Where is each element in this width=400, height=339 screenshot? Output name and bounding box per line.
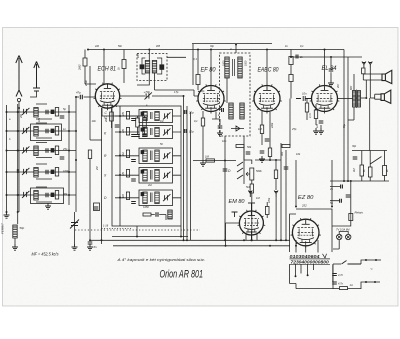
capacitor Ca2 <box>46 110 48 115</box>
trimmer row K <box>163 128 170 135</box>
coil row R a <box>143 150 147 162</box>
core T2 <box>233 59 235 76</box>
ground main <box>87 244 93 250</box>
resistor R right1 <box>360 165 364 176</box>
transformer output OPT <box>353 90 361 109</box>
wire el84 cath gnd <box>320 125 322 128</box>
junction <box>183 95 185 97</box>
coil row U b <box>155 112 159 121</box>
box coil row X <box>139 168 173 184</box>
junction <box>101 239 103 241</box>
capacitor row U <box>131 119 136 121</box>
wire det2 down <box>243 146 245 160</box>
wire row b stubs <box>36 123 52 138</box>
junction <box>285 239 287 241</box>
coil T2 secondary <box>238 57 242 78</box>
wire T2 inner <box>226 78 228 103</box>
resistor R right2 <box>368 167 372 177</box>
coil row K b <box>155 128 159 137</box>
capacitor 6n <box>88 242 93 244</box>
wire to plug top <box>361 260 366 264</box>
wire R right1 <box>361 151 363 182</box>
coil box bottom <box>168 210 172 219</box>
junction <box>375 259 377 261</box>
wire gang rail 2 <box>186 106 188 240</box>
wire plug stub bottom <box>366 281 380 283</box>
coil T1 secondary <box>152 61 156 74</box>
core row D <box>151 193 153 203</box>
wire EABC pin1 <box>261 111 263 125</box>
tube EABC80 V3 <box>252 84 282 113</box>
capacitor box bottom <box>156 212 158 217</box>
capacitor 4,7n a <box>332 274 337 276</box>
wire to plug bottom <box>348 282 367 289</box>
resistor R det <box>206 159 215 162</box>
capacitor C fb <box>284 167 289 169</box>
junction <box>17 211 19 213</box>
wire mains bottom <box>333 288 339 290</box>
wire detector out <box>243 136 245 160</box>
junction <box>224 239 226 241</box>
junction <box>119 155 121 157</box>
wire EABC right 1 <box>280 143 282 240</box>
resistor Re1 <box>55 191 58 200</box>
ground c top right <box>328 80 334 86</box>
capacitor coupling 10n <box>296 96 312 101</box>
junction <box>68 171 70 173</box>
switch mains <box>342 261 362 265</box>
trimmer row U <box>163 112 170 119</box>
trimmer row D <box>163 194 170 201</box>
matching box <box>362 68 365 74</box>
coil row D b <box>155 192 159 204</box>
capacitor C det2 <box>246 152 251 154</box>
box input bandfilter 1 <box>31 124 62 141</box>
resistor R EABC1 <box>260 125 263 134</box>
resistor R grid EL84 <box>305 103 308 112</box>
tube ECH81 V1 <box>94 83 122 111</box>
resistor row K <box>126 128 129 136</box>
wire EZ80 pin2 <box>317 240 319 253</box>
wire row X <box>115 174 181 176</box>
wire T1 to EF80 grid <box>155 90 199 96</box>
wire T1 to mixer <box>137 73 155 90</box>
wire cluster feed rail <box>75 97 77 212</box>
capacitor Cd2 <box>46 170 48 175</box>
wire mixer out <box>120 95 145 97</box>
wire R EABC1 down <box>261 134 263 146</box>
wire R4 <box>144 116 146 134</box>
capacitor C EABC <box>265 139 270 141</box>
junction <box>350 180 352 182</box>
wire EABC chain <box>269 112 271 160</box>
wire row a stubs <box>36 104 52 119</box>
wire row R <box>115 155 181 157</box>
resistor R right3 <box>383 166 387 176</box>
terminal strip bracket <box>323 254 327 258</box>
wire EF80 feed vertical <box>192 44 194 85</box>
resistor R screen EF80 <box>196 75 200 85</box>
junction <box>119 174 121 176</box>
wire EZ80 loop top <box>296 209 332 252</box>
wire left rail 2 <box>17 104 19 212</box>
junction <box>180 236 182 238</box>
capacitor row R <box>131 160 136 162</box>
junction <box>330 56 332 58</box>
resistor R5 <box>110 112 114 121</box>
wire det gnd <box>224 181 226 240</box>
coil row X b <box>155 170 159 182</box>
wire input row d <box>7 171 77 173</box>
EM80 left T-bar <box>232 212 238 217</box>
wire input row e <box>7 194 77 196</box>
ground gang <box>72 244 78 250</box>
junction <box>210 49 212 51</box>
junction <box>17 130 19 132</box>
junction <box>17 171 19 173</box>
wire R right3 <box>384 151 386 182</box>
junction <box>17 169 19 171</box>
trimmer row X <box>163 172 170 179</box>
socket row underline <box>290 259 331 264</box>
wire EABC anode <box>266 50 268 86</box>
wire speaker return <box>369 98 371 151</box>
capacitor Cc3 blob <box>51 149 54 153</box>
core row K <box>151 128 153 135</box>
coil La1 <box>34 108 38 118</box>
junction <box>186 239 188 241</box>
coil row X a <box>143 170 147 182</box>
wire EM80 grid <box>226 223 240 246</box>
tube EZ80 V6 <box>291 218 321 248</box>
wire gang link dotted <box>75 229 200 231</box>
coil Lb1 <box>34 127 38 137</box>
EM80 top T-bar <box>248 202 255 204</box>
resistor Rd1 <box>55 168 58 177</box>
tube EL84 V4 <box>310 84 340 113</box>
capacitor C6 <box>115 125 120 127</box>
switch contacts D <box>237 162 243 179</box>
ground EL84 r <box>313 128 319 134</box>
coil ferrite antenna <box>13 225 17 238</box>
wire EM80 cathode down <box>250 235 252 240</box>
capacitor C tone1 <box>341 185 343 189</box>
resistor row X <box>126 170 129 178</box>
wire speaker1 leads <box>363 74 382 80</box>
wire osc join <box>90 139 102 141</box>
junction <box>243 239 245 241</box>
box tuner coil pack <box>112 106 181 226</box>
capacitor C right <box>353 157 358 159</box>
wire input row c <box>7 150 77 152</box>
wire T2 feed <box>235 45 237 54</box>
wire AF bus <box>193 160 236 162</box>
capacitor C cath EL84 <box>319 121 324 123</box>
junction <box>103 49 105 51</box>
potentiometer volume 500k <box>250 168 254 180</box>
junction <box>290 56 292 58</box>
wire EM80 pins down <box>246 234 257 240</box>
junction <box>119 131 121 133</box>
capacitor row K <box>131 135 136 137</box>
junction <box>280 239 282 241</box>
wire lamps down <box>333 240 339 249</box>
core row U <box>151 112 153 119</box>
wire row d stubs <box>36 164 52 179</box>
junction <box>6 211 8 213</box>
switch tone <box>370 157 381 165</box>
capacitor 20p <box>184 110 186 114</box>
coil row D a <box>143 192 147 204</box>
junction <box>6 111 8 113</box>
resistor row U <box>126 112 129 120</box>
wire R3 <box>137 116 139 134</box>
resistor Rb1 <box>55 127 58 136</box>
wire c top right <box>330 57 332 80</box>
capacitor T1a <box>140 65 144 69</box>
capacitor C cath EF80 <box>218 126 223 128</box>
ground cath EF80 <box>217 130 223 136</box>
junction <box>343 180 345 182</box>
wire mains 1 <box>333 263 341 265</box>
capacitor row X <box>131 179 136 181</box>
ground av <box>259 156 265 162</box>
capacitor blob row R <box>141 151 144 154</box>
resistor row D <box>126 192 129 200</box>
junction <box>269 245 271 247</box>
wire fuse to transformer <box>332 221 351 227</box>
junction <box>17 194 19 196</box>
junction <box>87 49 89 51</box>
wire R2 leads <box>123 50 125 84</box>
wire box bottom bus <box>112 236 188 238</box>
wire row D <box>115 197 181 199</box>
capacitor Cb2 <box>46 129 48 134</box>
junction <box>89 239 91 241</box>
junction <box>68 130 70 132</box>
wire mains left drop <box>332 264 334 289</box>
wire plug stub top <box>366 259 381 261</box>
capacitor Cd3 blob <box>51 170 54 174</box>
junction <box>365 97 367 99</box>
junction <box>275 159 277 161</box>
junction <box>374 281 376 283</box>
wire input row b <box>7 130 77 132</box>
wire row K <box>115 131 181 133</box>
wire antenna rail down <box>18 108 20 212</box>
wire to ECH81 grid <box>84 96 96 98</box>
capacitor 47p <box>80 95 82 100</box>
antenna AM arrow <box>16 56 22 97</box>
diode load arrow <box>231 126 244 131</box>
wire OPT junction <box>353 97 367 99</box>
antenna FM arrow <box>33 62 40 92</box>
antenna coupling element <box>17 98 20 101</box>
trimmer +12p <box>145 92 152 99</box>
junction <box>119 115 121 117</box>
wire socket right drop <box>332 265 334 283</box>
coil Le1 <box>34 191 38 201</box>
wire g2 down <box>290 82 292 99</box>
resistor R anode load <box>282 144 290 147</box>
tube EM80 V5 <box>238 210 266 237</box>
resistor R EM80 <box>265 207 269 215</box>
capacitor C supply <box>346 195 351 197</box>
junction <box>365 259 367 261</box>
wire antenna coupling <box>76 96 79 98</box>
capacitor C det <box>223 169 228 171</box>
resistor Rc1 <box>55 146 58 155</box>
junction <box>275 239 277 241</box>
wire ferrite down <box>14 238 16 244</box>
capacitor tuning gang <box>70 220 79 229</box>
wire gang dotted label <box>102 228 132 230</box>
coil T2 quaternary <box>240 103 244 119</box>
component box pad <box>94 203 100 211</box>
junction <box>224 160 226 162</box>
junction <box>17 150 19 152</box>
capacitor C-in2 <box>60 157 65 159</box>
wire em right down <box>275 197 277 240</box>
junction lead1 <box>295 275 297 277</box>
fuse mains <box>340 287 348 290</box>
junction <box>365 281 367 283</box>
wire T1 feed <box>148 50 150 61</box>
ground EL84 <box>318 128 324 134</box>
trimmer row R <box>163 152 170 159</box>
wire lamps top <box>339 232 348 235</box>
wire feedback <box>289 99 291 147</box>
box coil row R <box>139 148 173 164</box>
wire det join <box>255 159 281 161</box>
coil T2 tertiary <box>229 103 233 119</box>
core row X <box>151 170 153 180</box>
socket leads <box>296 265 314 277</box>
wire top rail 2 <box>192 43 272 45</box>
junction <box>324 49 326 51</box>
junction <box>251 239 253 241</box>
wire EZ loop stub <box>295 160 297 207</box>
trimmer Cc1 <box>22 146 29 153</box>
wire input row a <box>7 111 77 113</box>
wire B+ right vertical <box>343 50 345 182</box>
wire R1 leads <box>85 50 96 85</box>
wire box bottom parts <box>151 215 166 221</box>
wire osc bus <box>102 108 148 116</box>
capacitor 12p <box>184 129 186 133</box>
ground ferrite <box>12 244 18 250</box>
box coil row D <box>139 190 173 206</box>
wire socket left drop <box>290 264 297 283</box>
lamp P1 <box>337 234 342 239</box>
wire box inner rail <box>119 106 121 226</box>
wire cluster right rail <box>68 105 70 205</box>
capacitor Cb3 blob <box>51 129 54 133</box>
wire R EM80 <box>266 202 268 218</box>
wire to gang <box>152 95 184 97</box>
wire gang rail 1 <box>183 96 185 240</box>
wire T2 down <box>224 136 226 181</box>
wire antenna down <box>18 102 20 108</box>
wire bottom rail long <box>90 239 290 241</box>
junction <box>6 130 8 132</box>
capacitor row D <box>131 202 136 204</box>
resistor R g2 b <box>289 75 293 82</box>
junction <box>136 236 138 238</box>
speaker LS1 <box>382 70 392 83</box>
speaker LS2 <box>381 90 391 103</box>
capacitor C-in1 <box>60 116 65 118</box>
wire g2 leads <box>290 50 292 75</box>
junction <box>347 180 349 182</box>
ground EF80 cath <box>200 160 206 166</box>
wire gang rail 3 drop <box>190 230 192 240</box>
capacitor T1b <box>160 65 164 70</box>
junction <box>183 239 185 241</box>
wire dipole down <box>366 68 370 99</box>
wire rail upper right <box>352 150 387 152</box>
core row R <box>151 151 153 161</box>
wire EF80 cathode <box>212 112 220 120</box>
wire ef80 k stub <box>219 119 221 125</box>
capacitor blob row U <box>141 112 144 115</box>
junction <box>6 171 8 173</box>
IF transformer T2 box <box>220 53 251 136</box>
wire outer left rail <box>101 108 103 244</box>
capacitor C osc1 <box>135 135 140 137</box>
coil Ld1 <box>34 168 38 178</box>
wire socket bottom bus <box>296 284 333 289</box>
resistor R cath EF80 <box>201 118 204 126</box>
junction <box>119 197 121 199</box>
resistor box bottom <box>143 213 151 216</box>
coil row U a <box>143 112 147 121</box>
junction <box>331 206 333 208</box>
wire top rail 3 <box>291 56 362 58</box>
box input bandfilter 2 <box>31 188 64 204</box>
resistor R g2 feed <box>289 57 293 65</box>
wire ECH81 anode <box>103 50 105 84</box>
junction <box>295 245 297 247</box>
coil row K a <box>143 128 147 137</box>
junction <box>197 49 199 51</box>
capacitor Ca3 blob <box>51 110 54 114</box>
wire rail mid right <box>330 180 389 182</box>
IF transformer T1 box <box>137 54 167 81</box>
capacitor C osc2 <box>142 135 147 137</box>
capacitor Ce3 blob <box>51 193 54 197</box>
wire left rail <box>6 105 8 212</box>
wire T1 inner <box>142 58 162 74</box>
wire to ferrite coil <box>17 212 19 224</box>
wire speaker2 leads <box>375 94 381 99</box>
junction <box>68 111 70 113</box>
junction <box>18 107 20 109</box>
wire AVC down <box>89 66 91 140</box>
coil T2 primary <box>225 57 229 78</box>
junction <box>235 44 237 46</box>
wire row e stubs <box>36 187 52 202</box>
junction <box>250 239 252 241</box>
resistor row R <box>126 150 129 158</box>
capacitor blob row X <box>141 170 144 173</box>
trimmer Ce1 <box>22 191 29 198</box>
wire EZ80 HT feed <box>331 160 333 207</box>
wire tone stubs <box>330 187 340 201</box>
box coil row K <box>139 126 173 139</box>
wire EF80 anode <box>210 50 212 86</box>
wire T1 out <box>167 56 186 58</box>
